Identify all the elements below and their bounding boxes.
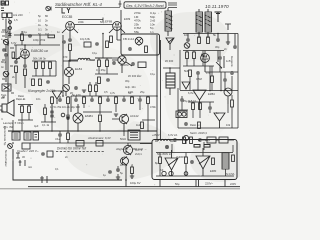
stamp box: [124, 2, 166, 8]
cap C29: [208, 106, 212, 110]
tube V4: [118, 56, 126, 64]
svg-text:Netztr. 220/6,3: Netztr. 220/6,3: [190, 131, 207, 135]
svg-text:10.11.1970: 10.11.1970: [205, 4, 229, 10]
value col text: [38, 14, 49, 36]
svg-text:470: 470: [206, 71, 211, 75]
svg-text:30p: 30p: [125, 79, 130, 83]
tube V1 pins: [62, 29, 78, 36]
right lower wire: [178, 104, 238, 128]
box FB inner comp cap C12: [128, 47, 132, 51]
dashed label box: [56, 151, 104, 153]
svg-text:1µ: 1µ: [103, 173, 106, 177]
svg-text:1n: 1n: [150, 30, 154, 34]
svg-text:Quelle f. 220 V~: Quelle f. 220 V~: [17, 149, 39, 153]
mid verticals to bus: [124, 131, 157, 140]
wires R37/38: [18, 105, 33, 121]
mid-left extra: resistor R66: [44, 108, 47, 115]
Tr2 leads: [199, 9, 208, 38]
resistor R36: [147, 97, 150, 104]
PSU trafo Tr4: [222, 153, 229, 169]
svg-text:FB 2x12: FB 2x12: [123, 37, 135, 41]
socket circle: [183, 135, 188, 144]
triangle X2 top: [52, 91, 62, 104]
Tr3 leads: [169, 68, 171, 95]
labels: [190, 92, 231, 127]
svg-text:30p: 30p: [215, 45, 220, 49]
gnd G3: [114, 114, 118, 116]
right mid extra: pot arrow: [216, 62, 222, 68]
resistor R18: [106, 60, 109, 67]
svg-text:AM/FM: AM/FM: [120, 63, 128, 67]
svg-text:56k: 56k: [134, 30, 139, 34]
svg-text:3n: 3n: [45, 28, 48, 32]
right mid cap C16: [201, 53, 205, 57]
bottom scan line: [28, 186, 240, 188]
left small comps: cap C53: [14, 60, 18, 64]
svg-text:AZ: AZ: [160, 168, 164, 172]
svg-text:0,1: 0,1: [38, 28, 42, 32]
svg-text:Abstimmanz. 6,3V: Abstimmanz. 6,3V: [87, 136, 112, 140]
transistor Q1: [112, 114, 129, 131]
stubs to bus: [52, 118, 100, 131]
cap C23: [106, 98, 110, 102]
svg-text:EF89: EF89: [124, 17, 131, 21]
cap C10: [23, 64, 27, 68]
svg-text:Drehko für UKW-Teil: Drehko für UKW-Teil: [57, 147, 86, 151]
svg-text:6,3V: 6,3V: [11, 41, 17, 45]
PSU resistor R50: [183, 137, 186, 144]
wire row B left: [14, 35, 60, 45]
box on wire 2: [96, 141, 103, 147]
resistor R34: [115, 97, 118, 104]
verticals row D to bus: [63, 76, 140, 110]
cap C22: [90, 98, 94, 102]
tube V2: [113, 22, 122, 31]
antenna T right: [215, 12, 222, 22]
right lower comps: cap C31: [184, 122, 188, 126]
svg-text:Drossel: Drossel: [86, 58, 95, 62]
svg-text:0,1µ: 0,1µ: [205, 138, 211, 142]
resistor R37: [21, 106, 24, 113]
svg-text:UKW: UKW: [1, 30, 8, 34]
PSU cap C45: [165, 145, 169, 149]
wire right y72: [205, 71, 238, 73]
cap C61: [50, 110, 54, 114]
svg-text:25µ 6k8 0,1: 25µ 6k8 0,1: [183, 99, 197, 103]
mark LY: [62, 8, 70, 13]
resistor R38: [28, 106, 31, 113]
PSU inner wires: [156, 142, 233, 157]
wires: [178, 96, 188, 110]
stamp text: [126, 4, 165, 8]
resistor R17: [98, 60, 101, 67]
svg-text:0,5M: 0,5M: [196, 77, 202, 81]
parts list column1: [134, 11, 156, 34]
svg-text:0,1µ: 0,1µ: [150, 72, 156, 76]
PSU res R58: [204, 145, 210, 148]
cap C6: [216, 38, 220, 42]
big box PSU: [152, 140, 237, 180]
small marks near terminal: [16, 153, 20, 158]
wires R72/73: [90, 82, 96, 96]
bus line main: [8, 130, 157, 132]
svg-text:5µ: 5µ: [120, 171, 123, 175]
svg-text:5p: 5p: [38, 14, 41, 18]
svg-text:0,1 25µ: 0,1 25µ: [96, 68, 106, 72]
paper mottling: [0, 12, 250, 182]
svg-text:2x0,1: 2x0,1: [135, 152, 142, 156]
svg-text:R5: R5: [1, 96, 5, 100]
svg-text:50k 1M 3n: 50k 1M 3n: [33, 57, 47, 61]
svg-text:EZ80: EZ80: [210, 169, 217, 173]
title handwriting: [55, 2, 102, 7]
right mid resistor R20: [186, 52, 189, 59]
box small mid: [128, 130, 140, 140]
svg-text:0,1µ: 0,1µ: [92, 51, 98, 55]
svg-text:ZF 460: ZF 460: [165, 59, 174, 63]
svg-text:1M: 1M: [60, 90, 64, 94]
coil L2: [78, 58, 90, 60]
output trafo Tr3: [166, 73, 175, 88]
svg-text:NF: NF: [128, 91, 132, 95]
right mid row2 resistor R22: [189, 70, 192, 77]
marks bottom left: [40, 176, 49, 183]
right mid wires: [183, 51, 224, 67]
svg-text:470: 470: [63, 55, 68, 59]
date handwriting: [205, 4, 229, 10]
resistor R72: [89, 85, 92, 92]
svg-text:50Hz: 50Hz: [120, 137, 127, 141]
comp near left: cap C43: [41, 152, 45, 156]
svg-text:mA: mA: [28, 165, 32, 169]
bottom mid extra: cap C63: [108, 170, 112, 174]
svg-text:4µF: 4µF: [34, 124, 39, 128]
PSU top wire: [155, 140, 234, 141]
svg-text:10p 6,8k: 10p 6,8k: [80, 37, 91, 41]
svg-text:10: 10: [38, 19, 41, 23]
wires below bus: [60, 131, 68, 143]
left edge tick column: [2, 30, 14, 97]
svg-text:tiefp. 10n: tiefp. 10n: [125, 85, 136, 89]
svg-text:100p 470k: 100p 470k: [33, 38, 46, 42]
tube V9: [224, 88, 232, 104]
box FB inner resistor R16: [145, 46, 148, 53]
wire right top bus: [183, 34, 238, 46]
PSU res R57: [194, 145, 200, 148]
right mid row2 cap C17: [196, 71, 200, 75]
PSU cap C41: [198, 138, 202, 142]
right mid resistor R21: [193, 52, 196, 59]
box FB: [121, 34, 160, 55]
row D comps: resistor R30: [51, 97, 54, 104]
svg-text:10n: 10n: [36, 97, 41, 101]
svg-text:Klemmleiste 5p.: Klemmleiste 5p.: [3, 126, 7, 146]
resistor R8: [207, 37, 210, 44]
resistor R41: [199, 103, 202, 110]
resistor R14: [32, 79, 35, 86]
resistor R32: [83, 97, 86, 104]
meter circles: [176, 111, 187, 118]
wire anode bus: [75, 24, 113, 26]
cap C24: [122, 98, 126, 102]
left texts more: [1, 38, 26, 121]
cap C50: [68, 38, 72, 42]
wires right mid: [212, 66, 225, 91]
box on wire: [76, 141, 84, 147]
svg-text:EL84: EL84: [75, 67, 82, 71]
right extra bits: [180, 98, 184, 102]
svg-text:Si 0,5A: Si 0,5A: [226, 172, 235, 176]
svg-text:Gegenk.: Gegenk.: [230, 56, 234, 68]
resistor R33: [99, 97, 102, 104]
wire grid row C: [32, 61, 56, 76]
resistor R13: [49, 62, 52, 69]
svg-text:Ges. 6,3V/75mA 2 Band: Ges. 6,3V/75mA 2 Band: [126, 4, 165, 8]
cap C21: [74, 98, 78, 102]
wire: [24, 76, 26, 89]
bottom cluster: gnd G4: [116, 177, 120, 179]
svg-text:100µ 6V: 100µ 6V: [130, 181, 141, 185]
resistor R63: [15, 66, 18, 73]
stamp side mark: [168, 3, 177, 7]
row D top wire: [71, 96, 157, 112]
Q2 top lead: [127, 143, 129, 145]
resistor R15: [39, 79, 42, 86]
svg-text:Ant 240: Ant 240: [13, 13, 23, 17]
cap C64: [218, 56, 222, 60]
svg-text:10k: 10k: [226, 123, 231, 127]
right triangle X3: [193, 90, 206, 110]
tube V7: [201, 54, 210, 63]
svg-text:6,3V 2A: 6,3V 2A: [168, 133, 177, 137]
svg-text:220k: 220k: [78, 20, 84, 24]
resistor R68: [21, 34, 24, 41]
second bottom faint line: [0, 188, 240, 190]
left edge res R70: [12, 52, 15, 58]
wire joins: [95, 58, 118, 74]
cap C15: [74, 86, 78, 90]
svg-text:ZF 460 kHz: ZF 460 kHz: [128, 74, 142, 78]
PSU extra: res R56: [212, 158, 215, 165]
gnd G1: [226, 42, 230, 44]
cap C7: [233, 45, 237, 49]
scattered labels layer: [18, 17, 236, 186]
V7 leads: [205, 51, 224, 73]
svg-text:25µ: 25µ: [140, 90, 145, 94]
box K3: [33, 132, 39, 140]
svg-text:EF89: EF89: [105, 20, 113, 24]
wire trafo Tr3 top link: [163, 50, 180, 90]
scan speckle: [7, 2, 233, 186]
resistor R12: [42, 62, 45, 69]
cap C28: [66, 114, 70, 118]
small circle node: [61, 113, 65, 117]
row D stubs: [52, 96, 148, 98]
cap C65: [131, 62, 135, 66]
PSU cap C42: [190, 160, 194, 164]
terminal box left: [22, 143, 30, 149]
corner mark: [2, 1, 5, 6]
speaker wires: [0, 106, 2, 110]
svg-text:Süddeutscher Rdf. KL-4: Süddeutscher Rdf. KL-4: [55, 2, 102, 7]
cap C20: [58, 98, 62, 102]
cap C27: [50, 114, 54, 118]
resistor R67: [211, 76, 214, 83]
main left vertical rail: [7, 27, 9, 103]
svg-text:0,5: 0,5: [104, 90, 108, 94]
svg-text:80p: 80p: [1, 60, 6, 64]
extra hatch marks in Tr boxes: [166, 14, 211, 29]
right wire y90: [180, 66, 238, 91]
svg-text:220V: 220V: [230, 182, 236, 186]
node mark top: [118, 1, 121, 8]
wire C64: [219, 51, 221, 73]
svg-text:Klangregler 2x10k: Klangregler 2x10k: [28, 89, 56, 93]
svg-text:Ratio-El.: Ratio-El.: [16, 97, 26, 101]
left edge small caps: [2, 48, 6, 52]
tube V6 small: [63, 85, 70, 96]
resistor R62: [106, 41, 109, 48]
wire: [5, 57, 7, 70]
svg-text:5µ: 5µ: [45, 23, 48, 27]
small box mid: [84, 42, 91, 47]
IF transformer Tr2b: [205, 12, 212, 32]
PSU res R58: [204, 145, 210, 148]
svg-text:0,1: 0,1: [20, 47, 24, 51]
transistor Q3: [121, 157, 129, 187]
svg-text:0,1: 0,1: [55, 167, 59, 171]
bottom cluster: cap C44: [116, 168, 120, 172]
tube V2 pins: [109, 29, 125, 36]
svg-text:220V~: 220V~: [205, 182, 214, 186]
comps below bus mid-left: cap C66: [58, 133, 62, 137]
resistor R31: [67, 97, 70, 104]
resistor R11: [35, 62, 38, 69]
cap C51: [62, 40, 66, 44]
svg-text:rt: rt: [1, 117, 3, 121]
tube V5 with X: [64, 67, 73, 84]
wire: [15, 73, 17, 85]
bottom cluster: resistor R55: [131, 167, 134, 174]
chain nodes: [9, 21, 12, 37]
socket circle X: [184, 43, 190, 49]
PSU triangle X5: [165, 150, 178, 176]
wire antenna down: [6, 20, 10, 38]
double vertical rail: [157, 35, 161, 140]
svg-text:Ub+: Ub+: [55, 137, 60, 141]
cap C62: [223, 78, 227, 82]
cap C13: [112, 61, 116, 65]
svg-text:AM: AM: [44, 49, 48, 53]
PSU resistor R52: [159, 157, 162, 164]
right comps row: resistor R40: [192, 103, 195, 110]
resistor R10: [24, 69, 27, 76]
resistor R65: [48, 35, 55, 38]
svg-text:80: 80: [45, 14, 48, 18]
wire V2 to box: [117, 36, 121, 40]
svg-text:EM84: EM84: [85, 114, 93, 118]
small box M1: [138, 62, 146, 68]
resistor R42: [198, 122, 201, 129]
box K2: [24, 132, 31, 140]
cap C1: [4, 53, 8, 57]
svg-text:1k2: 1k2: [136, 123, 141, 127]
gnd G2: [82, 90, 86, 92]
box FB inner circle: [135, 37, 143, 46]
svg-text:470k: 470k: [150, 105, 156, 109]
transistor Q2: [123, 145, 132, 155]
vertical rail x63: [62, 35, 64, 76]
bus stubs: [13, 104, 116, 131]
PSU resistor R51: [190, 137, 193, 144]
IF transformer Tr2a: [196, 12, 203, 32]
coil L2 leads: [69, 60, 95, 67]
svg-text:6,3V~: 6,3V~: [188, 91, 195, 95]
paper background: [0, 0, 240, 190]
PSU box small2: [219, 137, 228, 143]
svg-text:0,1µ: 0,1µ: [22, 30, 28, 34]
right wires: [178, 34, 238, 129]
tube V3 leads: [16, 45, 25, 64]
PSU circles bottom: [162, 171, 188, 175]
svg-text:1k 5n 70k 10n 2k 50µ 300: 1k 5n 70k 10n 2k 50µ 300: [50, 105, 80, 109]
left top extra: cap C60: [28, 34, 32, 38]
triangle X1: [166, 38, 174, 44]
svg-text:ECC85: ECC85: [62, 15, 73, 19]
resistor R64: [141, 122, 144, 129]
PSU drop wires: [160, 180, 225, 187]
row under transformers: cap C5: [186, 38, 190, 42]
switch boxes row: box K1: [12, 132, 20, 140]
cap C14: [106, 78, 110, 82]
wires: [41, 104, 56, 122]
box S2: [47, 151, 53, 157]
vertical rail x121: [120, 10, 122, 36]
svg-text:EABC80: EABC80: [31, 49, 43, 53]
svg-text:Netzschalter: Netzschalter: [4, 150, 8, 167]
wire: [63, 51, 78, 62]
tube V1: [66, 22, 75, 31]
Tr1 leads: [167, 8, 169, 36]
svg-text:5k6: 5k6: [184, 69, 189, 73]
wire y143: [30, 142, 152, 144]
wire x148 down: [142, 104, 155, 131]
resistor R60: [69, 44, 72, 51]
PSU resistor R54: [232, 155, 235, 162]
PSU res R57: [194, 145, 200, 148]
PSU box small: [207, 137, 216, 143]
svg-text:+250V: +250V: [152, 133, 160, 137]
resistor R39: [99, 115, 102, 122]
cap C25: [138, 98, 142, 102]
svg-text:1,5: 1,5: [14, 18, 18, 22]
tube V4 leads: [112, 55, 132, 73]
cluster stubs: [118, 164, 132, 177]
svg-text:ZF: ZF: [70, 91, 74, 95]
svg-text:0,1 1k: 0,1 1k: [42, 123, 50, 127]
resistor R61: [110, 36, 113, 43]
V8 side comps cap C26: [66, 116, 70, 120]
IF transformer Tr1: [165, 11, 172, 31]
PSU cap C45: [165, 145, 169, 149]
cap C30: [231, 100, 234, 107]
PSU inner top row: coil L3: [158, 139, 170, 141]
cap C18: [230, 71, 234, 75]
coil L1: [3, 39, 9, 52]
svg-text:AC122: AC122: [130, 114, 139, 118]
PSU triangle X6: [196, 148, 210, 176]
svg-text:Ratio 2x: Ratio 2x: [190, 123, 200, 127]
